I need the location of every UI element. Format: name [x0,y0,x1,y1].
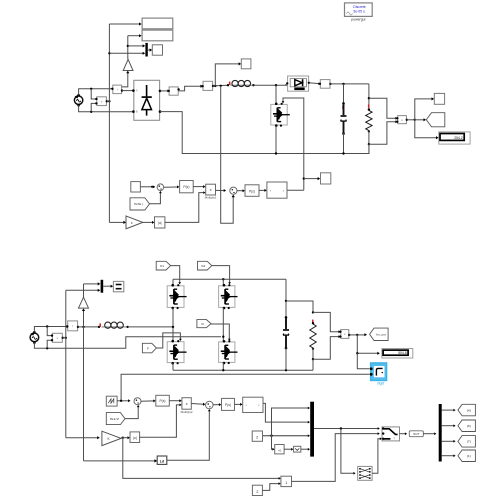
svg-text:Ld: Ld [160,460,164,464]
svg-text:K2: K2 [201,264,205,268]
svg-text:254.2: 254.2 [454,136,463,140]
svg-text:K: K [131,221,133,225]
svg-text:A: A [136,89,138,93]
svg-text:[7]: [7] [467,440,471,444]
svg-text:NOT: NOT [413,432,420,436]
svg-text:x: x [186,402,188,406]
svg-text:[4]: [4] [467,408,471,412]
svg-text:Multiply2: Multiply2 [181,410,193,414]
svg-text:F: F [147,346,149,350]
svg-text:2: 2 [256,436,258,440]
svg-text:5e-05 s.: 5e-05 s. [353,9,365,13]
svg-text:|u|: |u| [133,436,137,440]
svg-text:[6]: [6] [467,424,471,428]
svg-text:P(s): P(s) [183,185,189,189]
svg-text:2: 2 [256,490,258,494]
svg-text:1: 1 [285,481,287,485]
svg-text:504.8: 504.8 [398,351,407,355]
svg-text:|u|: |u| [158,221,162,225]
svg-text:powergui: powergui [351,18,365,22]
svg-text:P(s): P(s) [225,403,231,407]
svg-text:>0: >0 [278,448,282,452]
svg-text:[1]: [1] [467,454,471,458]
svg-text:x: x [210,188,212,192]
svg-text:hv_out: hv_out [376,333,385,337]
svg-text:dfgdf: dfgdf [377,382,384,386]
svg-text:P(s): P(s) [249,189,255,193]
svg-text:P(s): P(s) [159,399,165,403]
svg-text:B: B [136,110,138,114]
svg-text:K1: K1 [160,264,164,268]
svg-text:HLk<Z: HLk<Z [110,417,119,421]
svg-text:Hvhk |: Hvhk | [134,202,143,206]
svg-text:Multiply1: Multiply1 [205,196,217,200]
